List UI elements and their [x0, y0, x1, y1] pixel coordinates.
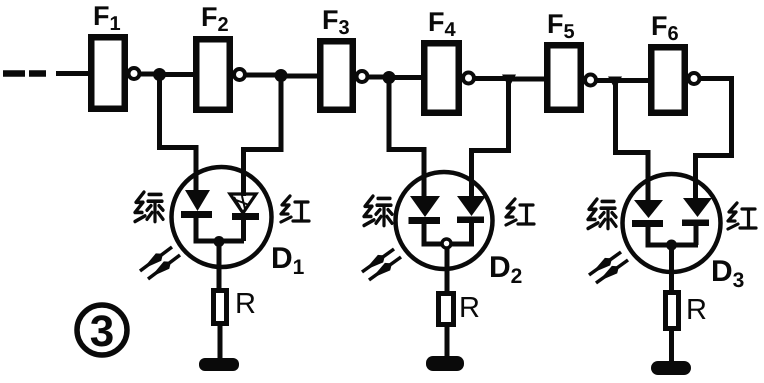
wire F1 bubble to node — [140, 72, 160, 77]
output bubble F1 — [129, 68, 140, 79]
svg-text:F1: F1 — [93, 1, 121, 35]
D1 common cathode node — [214, 236, 225, 247]
D1 red diode cathode bar — [232, 213, 259, 220]
node after F1 — [153, 68, 166, 81]
wire D1 cathodes to common node — [194, 218, 245, 241]
wire node to F5 — [508, 77, 548, 82]
label red for D3 — [728, 203, 756, 229]
wire node to F2 — [159, 72, 195, 77]
wire F6 output down to D3 red anode — [696, 79, 732, 201]
resistor R1 — [214, 291, 227, 324]
node after F3 — [383, 71, 396, 84]
D1 green diode (solid) — [185, 190, 210, 211]
svg-text:F3: F3 — [322, 5, 350, 39]
D2 green diode (solid) — [410, 196, 440, 217]
node after F4 — [502, 75, 516, 88]
wire node to F4 — [389, 75, 424, 80]
wire node F4 down to D2 red anode — [472, 79, 509, 198]
wire F5 bubble to node — [597, 78, 617, 83]
wire D2 node down to R — [445, 248, 450, 293]
D2 red diode cathode bar — [457, 217, 484, 224]
label green for D2 — [364, 196, 392, 225]
D3 red diode cathode bar — [682, 220, 709, 227]
svg-text:R: R — [235, 288, 256, 320]
output bubble F4 — [463, 73, 474, 84]
D3 common cathode node — [666, 240, 677, 251]
wire F2 bubble to node — [246, 73, 283, 78]
output bubble F2 — [234, 69, 245, 80]
wire node to F6 — [615, 78, 652, 83]
D2 green diode cathode bar — [409, 217, 441, 224]
wire node F2 down to D1 red anode — [244, 76, 282, 196]
svg-text:R: R — [686, 294, 707, 326]
D3 red diode (solid) — [683, 198, 712, 217]
light emission arrows D1 — [140, 247, 180, 279]
label green for D1 — [135, 192, 163, 221]
svg-text:F2: F2 — [201, 2, 229, 36]
node after F2 — [275, 69, 288, 82]
light emission arrows D2 — [362, 249, 401, 280]
light emission arrows D3 — [589, 252, 628, 283]
wire node F1 down to D1 green anode — [160, 75, 197, 192]
svg-text:F5: F5 — [547, 9, 575, 43]
resistor R3 — [666, 293, 679, 329]
D2 common cathode node (open) — [442, 239, 451, 248]
inverter F5 — [547, 45, 581, 110]
wire node to F3 — [281, 74, 320, 79]
svg-text:3: 3 — [90, 307, 114, 356]
inverter F4 — [424, 43, 459, 113]
wire node F3 down to D2 green anode — [389, 78, 424, 198]
node after F5 — [608, 77, 622, 90]
label red for D2 — [506, 199, 534, 225]
output bubble F5 — [585, 75, 596, 86]
wire node F5 down to D3 green anode — [616, 81, 649, 202]
ground D1 — [199, 358, 239, 371]
D1 red diode (open triangle) — [230, 194, 256, 213]
label green for D3 — [588, 199, 616, 228]
svg-text:R: R — [459, 292, 480, 324]
resistor R2 — [439, 294, 454, 325]
wire R1 to ground — [218, 323, 223, 359]
inverter F1 — [91, 37, 125, 109]
ground D3 — [651, 361, 691, 375]
output bubble F3 — [357, 71, 368, 82]
D3 green diode (solid) — [634, 200, 663, 218]
wire F3 bubble to node — [368, 75, 390, 80]
svg-text:D1: D1 — [271, 242, 305, 279]
inverter F6 — [651, 47, 685, 113]
svg-text:D3: D3 — [711, 255, 744, 292]
D2 red diode (solid) — [457, 196, 486, 216]
label red for D1 — [281, 196, 309, 222]
wire D3 node down to R — [669, 245, 674, 292]
svg-text:D2: D2 — [489, 251, 522, 288]
wire R2 to ground — [445, 324, 450, 357]
wire D2 cathodes to common node — [422, 223, 475, 244]
svg-text:F4: F4 — [428, 7, 457, 41]
wire R3 to ground — [669, 328, 674, 362]
figure number circle — [77, 305, 127, 355]
inverter F3 — [320, 41, 353, 110]
D3 green diode cathode bar — [632, 220, 663, 227]
output bubble F6 — [689, 73, 700, 84]
input dashed wire — [3, 70, 90, 77]
wire D1 node down to R — [217, 241, 222, 290]
D1 green diode cathode bar — [181, 211, 212, 218]
LED D1 envelope circle — [172, 167, 272, 267]
wire D3 cathodes to common node — [646, 226, 699, 245]
wire F4 bubble to node — [475, 76, 510, 81]
inverter F2 — [196, 39, 230, 110]
LED D3 envelope circle — [623, 174, 721, 272]
ground D2 — [426, 356, 464, 371]
svg-text:F6: F6 — [651, 11, 679, 45]
LED D2 envelope circle — [396, 172, 493, 269]
